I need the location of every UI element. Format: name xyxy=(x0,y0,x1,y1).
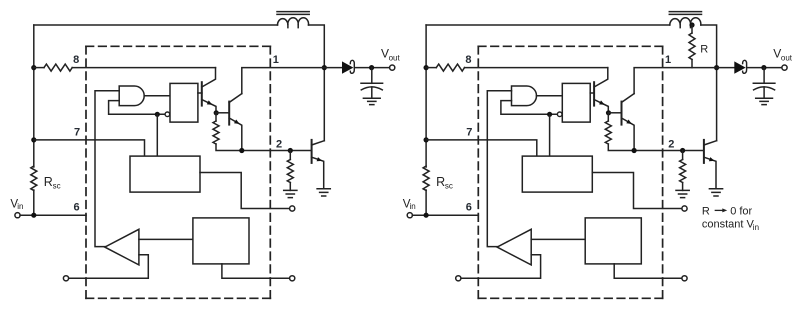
node: pin1/diode junction xyxy=(322,65,327,70)
AND gate U1a xyxy=(119,86,144,106)
svg-text:R: R xyxy=(700,44,708,56)
node: pin 8 rail junction xyxy=(424,65,429,70)
comparator U4a xyxy=(105,229,139,265)
terminal: Vin input xyxy=(15,213,20,218)
transistor Q3b (external switch) xyxy=(704,140,717,189)
wire: pin 6 from Vin terminal xyxy=(412,214,478,216)
IC boundary (dashed) xyxy=(86,46,270,298)
wire: pin 2 line xyxy=(608,144,702,151)
wire: comparator input from reference xyxy=(531,238,585,240)
svg-text:in: in xyxy=(410,202,416,211)
wire: AND bottom input / latch gate line xyxy=(501,101,558,115)
ground: output capacitor xyxy=(756,98,773,104)
wire: pin 2 line xyxy=(216,144,310,151)
node: Q1 emitter / Q2 base junction xyxy=(606,110,611,115)
svg-text:R: R xyxy=(702,205,710,217)
ground: bleed resistor xyxy=(676,190,689,197)
node: output capacitor junction xyxy=(761,65,766,70)
capacitor Ca (output, polarized) xyxy=(361,68,383,99)
terminal: Vout xyxy=(782,65,787,70)
oscillator block U3a xyxy=(130,156,200,192)
wire: comparator inverting input to pin 5 terminal xyxy=(69,255,149,278)
svg-text:8: 8 xyxy=(73,54,79,66)
comparator U4b xyxy=(497,229,531,265)
terminal: feedback pin 5 xyxy=(456,276,461,281)
ground: output capacitor xyxy=(363,98,380,104)
node: output capacitor junction xyxy=(369,65,374,70)
resistor R (right circuit) xyxy=(689,25,695,68)
svg-text:out: out xyxy=(781,53,793,62)
node: Q2 emitter on pin 2 line xyxy=(239,148,244,153)
resistor R8b (drive feed) xyxy=(426,64,464,71)
resistor Rbb (base bleed) xyxy=(680,151,686,191)
svg-text:out: out xyxy=(389,53,401,62)
svg-text:2: 2 xyxy=(668,138,674,150)
node: Vin rail junction xyxy=(424,213,429,218)
terminal: Vin input xyxy=(407,213,412,218)
resistor R8a (drive feed) xyxy=(34,64,72,71)
svg-text:sc: sc xyxy=(445,181,453,190)
wire: pin 1 line from Q2 collector xyxy=(242,68,324,94)
terminal: timing cap pin xyxy=(290,206,295,211)
node: Q1 emitter / Q2 base junction xyxy=(214,110,219,115)
svg-text:1: 1 xyxy=(273,54,279,66)
wire: AND output to latch xyxy=(537,95,563,97)
wire: comparator output to AND top input xyxy=(487,91,511,247)
svg-text:7: 7 xyxy=(466,127,472,139)
wire: top horizontal from rail to inductor xyxy=(34,24,278,26)
oscillator block U3b xyxy=(522,156,592,192)
inductor La (with core bars) xyxy=(277,12,309,28)
svg-text:2: 2 xyxy=(276,138,282,150)
reference block U5b xyxy=(585,218,641,264)
ground: bleed resistor xyxy=(284,190,297,197)
wire: comparator inverting input to pin 5 terminal xyxy=(461,255,541,278)
svg-text:in: in xyxy=(753,223,759,232)
node: Q2 emitter on pin 2 line xyxy=(632,148,637,153)
svg-text:constant V: constant V xyxy=(702,219,755,231)
resistor Rea (emitter resistor) xyxy=(213,113,219,144)
wire: latch output to Q1 base xyxy=(198,92,202,94)
resistor Rscb xyxy=(423,166,429,191)
node: pin 7 rail junction xyxy=(424,137,429,142)
wire: diode to output terminal xyxy=(748,67,782,69)
node: inductor/R junction (right) xyxy=(689,22,694,27)
transistor Q3a (external switch) xyxy=(312,140,325,189)
wire: input rail left vertical xyxy=(425,25,427,215)
wire: AND output to latch xyxy=(144,95,170,97)
wire: input rail left vertical xyxy=(33,25,35,215)
svg-text:R: R xyxy=(44,175,53,189)
svg-text:7: 7 xyxy=(74,127,80,139)
svg-text:6: 6 xyxy=(466,202,472,214)
ground: Q3 emitter xyxy=(317,189,330,196)
inverter bubble on latch input xyxy=(165,112,170,117)
terminal: bottom right pin xyxy=(682,276,687,281)
wire: top horizontal from rail to inductor xyxy=(426,24,670,26)
wire: comparator input from reference xyxy=(139,238,193,240)
node: latch input junction xyxy=(547,112,552,117)
inverter bubble on latch input xyxy=(557,112,562,117)
resistor Rba (base bleed) xyxy=(287,151,293,191)
svg-text:1: 1 xyxy=(665,54,671,66)
wire: junction down to oscillator xyxy=(549,114,551,156)
wire: pin 8 into IC to Q1 collector xyxy=(465,67,608,69)
reference block U5a xyxy=(193,218,249,264)
wire: pin 7 to oscillator xyxy=(426,140,537,156)
capacitor Cb (output, polarized) xyxy=(753,68,775,99)
node: Vin rail junction xyxy=(31,213,36,218)
node: pin 8 rail junction xyxy=(31,65,36,70)
transistor Q1a (driver) xyxy=(202,68,216,113)
node: pin 2 branch junction xyxy=(288,148,293,153)
resistor Rsca xyxy=(31,166,37,191)
transistor Q2b (output switch) xyxy=(622,94,635,151)
wire: junction down to oscillator xyxy=(156,114,158,156)
wire: diode to output terminal xyxy=(356,67,390,69)
transistor Q2a (output switch) xyxy=(229,94,242,151)
annotation: R -> 0 for constant Vin xyxy=(702,205,759,232)
terminal: feedback pin 5 xyxy=(63,276,68,281)
svg-text:sc: sc xyxy=(53,181,61,190)
wire: oscillator output to timing terminal xyxy=(200,173,290,209)
wire: reference block to bottom terminal xyxy=(614,264,682,278)
wire: AND bottom input / latch gate line xyxy=(109,101,166,115)
IC boundary (dashed) xyxy=(478,46,662,298)
wire: inductor to output switch column xyxy=(701,25,717,141)
node: pin 7 rail junction xyxy=(31,137,36,142)
inductor Lb (with core bars) xyxy=(669,12,701,28)
diode Db (rectifier) xyxy=(734,60,746,73)
latch block U2b xyxy=(562,83,590,122)
resistor Reb (emitter resistor) xyxy=(605,113,611,144)
node: pin 2 branch junction xyxy=(680,148,685,153)
latch block U2a xyxy=(170,83,198,122)
svg-text:R: R xyxy=(436,175,445,189)
wire: pin 7 to oscillator xyxy=(34,140,145,156)
node: pin1/diode junction xyxy=(714,65,719,70)
wire: to Q2 base xyxy=(216,112,228,114)
terminal: Vout xyxy=(390,65,395,70)
diode Da (rectifier) xyxy=(342,60,354,73)
wire: diode anode feed xyxy=(324,67,342,69)
AND gate U1b xyxy=(512,86,537,106)
svg-text:in: in xyxy=(17,202,23,211)
wire: inductor to output switch column xyxy=(309,25,325,141)
wire: diode anode feed xyxy=(717,67,735,69)
terminal: timing cap pin xyxy=(682,206,687,211)
wire: oscillator output to timing terminal xyxy=(592,173,682,209)
svg-text:8: 8 xyxy=(465,54,471,66)
wire: pin 6 from Vin terminal xyxy=(20,214,86,216)
svg-text:6: 6 xyxy=(73,202,79,214)
wire: latch output to Q1 base xyxy=(590,92,594,94)
annotation arrow xyxy=(715,209,724,211)
node: latch input junction xyxy=(155,112,160,117)
wire: comparator output to AND top input xyxy=(95,91,119,247)
transistor Q1b (driver) xyxy=(594,68,608,113)
wire: pin 8 into IC to Q1 collector xyxy=(72,67,215,69)
svg-text:0 for: 0 for xyxy=(730,205,752,217)
ground: Q3 emitter xyxy=(709,189,722,196)
wire: pin 1 line from Q2 collector xyxy=(634,68,717,94)
terminal: bottom right pin xyxy=(290,276,295,281)
wire: to Q2 base xyxy=(608,112,620,114)
wire: reference block to bottom terminal xyxy=(222,264,290,278)
